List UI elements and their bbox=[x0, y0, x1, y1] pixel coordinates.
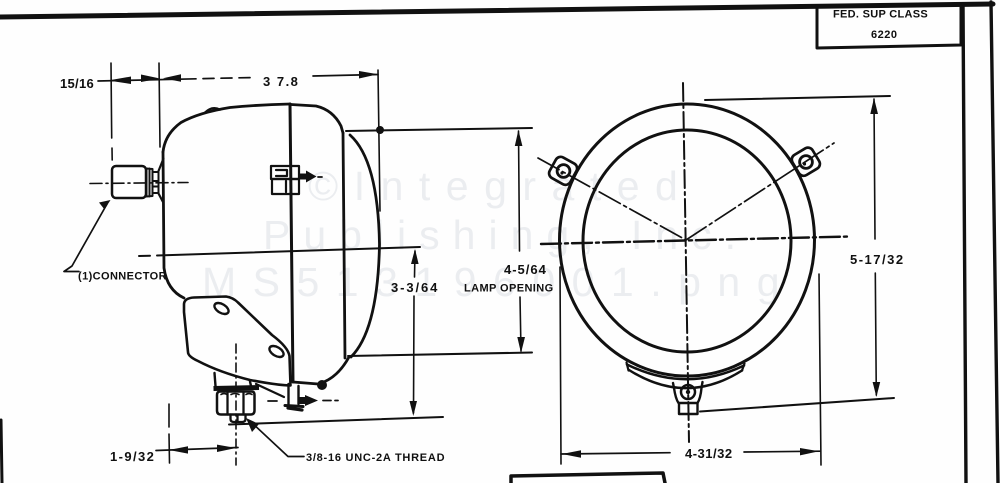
top dimension line left part bbox=[98, 78, 250, 81]
stud end center dot bbox=[686, 390, 690, 394]
rear foot bottom pad bbox=[285, 406, 303, 407]
top dimension line right part bbox=[313, 75, 378, 77]
inner lens ellipse bbox=[583, 130, 791, 352]
4-31/32 dim line right bbox=[744, 450, 820, 453]
3-3/64 top extension line bbox=[139, 247, 420, 256]
right diagonal centerline bbox=[686, 143, 834, 240]
bottom partial box bbox=[511, 473, 665, 483]
arrow at right ext bbox=[359, 71, 378, 79]
3-3/64 dimension line upper bbox=[414, 251, 417, 277]
connector leader line bbox=[64, 204, 107, 272]
3-3/64 arrow up bbox=[411, 249, 419, 264]
svg-text:6220: 6220 bbox=[871, 29, 897, 41]
bottom flange lower edge bbox=[629, 370, 742, 388]
svg-text:LAMP OPENING: LAMP OPENING bbox=[464, 283, 554, 295]
left border bottom segment bbox=[1, 420, 2, 483]
stud end below nut bbox=[231, 415, 246, 423]
bracket lower fold line to foot bbox=[256, 384, 284, 397]
4-31/32 dim line left bbox=[561, 453, 670, 454]
1-9/32 arrow left bbox=[169, 446, 188, 453]
body center seam line bbox=[290, 104, 293, 382]
3-3/64 bottom extension line bbox=[229, 417, 443, 425]
mounting bracket outline bbox=[184, 297, 291, 386]
fed sup class title box bbox=[817, 6, 961, 48]
svg-text:3-3/64: 3-3/64 bbox=[391, 280, 439, 295]
stud shoulder bbox=[215, 373, 252, 386]
5-17/32 top extension bbox=[705, 96, 890, 100]
svg-text:4-31/32: 4-31/32 bbox=[685, 446, 733, 461]
hex nut facet lines bbox=[228, 392, 244, 415]
svg-text:5-17/32: 5-17/32 bbox=[850, 252, 905, 267]
lens mounting face vertical bbox=[343, 133, 345, 358]
flange left end cap bbox=[627, 363, 629, 371]
svg-text:3 7.8: 3 7.8 bbox=[263, 74, 299, 89]
3-3/64 arrow down bbox=[410, 401, 418, 416]
thread leader arrowhead bbox=[246, 418, 259, 432]
lamp opening dim line lower bbox=[520, 297, 521, 351]
junction dot bottom of lens bbox=[317, 380, 327, 390]
body bottom edge bbox=[293, 357, 349, 384]
flange right end cap bbox=[742, 364, 745, 371]
stud housing trapezoid bbox=[673, 382, 703, 403]
1-9/32 left extension bbox=[168, 404, 171, 463]
5-17/32 arrow down bbox=[873, 382, 881, 397]
svg-text:FED. SUP CLASS: FED. SUP CLASS bbox=[833, 9, 928, 21]
left mounting ear bbox=[547, 155, 579, 187]
4-31/32 arrow right bbox=[800, 448, 819, 455]
svg-text:1-9/32: 1-9/32 bbox=[110, 449, 155, 464]
body top right edge and rear corner bbox=[291, 105, 343, 134]
stud housing lower block bbox=[679, 403, 698, 414]
right border inner vertical bbox=[963, 4, 966, 483]
bracket hole lower bbox=[268, 344, 286, 360]
lamp body left edge bbox=[163, 152, 184, 298]
5-17/32 arrow up bbox=[870, 98, 878, 114]
connector centerline bbox=[90, 183, 188, 184]
rear foot centerline dashes bbox=[268, 400, 338, 403]
rear foot verticals bbox=[289, 384, 299, 405]
svg-text:©Integrated: ©Integrated bbox=[308, 163, 693, 209]
1-9/32 dimension line bbox=[156, 448, 238, 451]
4-31/32 left extension bbox=[560, 267, 561, 464]
extension line 15/16 left bbox=[111, 63, 112, 160]
lamp opening top extension bbox=[346, 128, 532, 131]
junction dot on lamp opening extension bbox=[376, 126, 384, 134]
connector flange bbox=[147, 169, 153, 197]
horizontal centerline bbox=[541, 237, 850, 245]
1-9/32 arrow right bbox=[217, 445, 236, 452]
lamp body top dome curve bbox=[163, 104, 290, 152]
svg-text:4-5/64: 4-5/64 bbox=[504, 262, 547, 277]
connector flare top bbox=[159, 159, 164, 172]
connector body block bbox=[112, 166, 146, 198]
arrow at left ext bbox=[108, 77, 131, 85]
thread leader line bbox=[250, 421, 304, 457]
svg-text:15/16: 15/16 bbox=[60, 76, 94, 91]
lens bulge arc bbox=[350, 135, 380, 357]
left diagonal centerline bbox=[538, 158, 686, 240]
rear foot arrow bbox=[299, 397, 305, 404]
socket arrow dash bbox=[318, 176, 322, 178]
4-31/32 right extension bbox=[819, 274, 821, 465]
5-17/32 bottom extension bbox=[700, 398, 894, 412]
extension line shared middle bbox=[159, 63, 160, 147]
connector leader arrowhead bbox=[99, 200, 111, 210]
lamp opening arrow up bbox=[515, 130, 523, 146]
right mounting ear bbox=[790, 146, 822, 178]
right border outer vertical bbox=[991, 2, 998, 483]
stud end ring bbox=[681, 385, 695, 399]
extension line 3-7/8 right bbox=[378, 70, 380, 211]
3-3/64 dimension line lower bbox=[413, 296, 416, 413]
screw bump on dome bbox=[205, 108, 220, 112]
lamp opening dim line upper bbox=[519, 131, 520, 251]
svg-text:(1)CONNECTOR: (1)CONNECTOR bbox=[78, 271, 167, 283]
hex nut bbox=[217, 392, 255, 415]
right ear hole bbox=[800, 156, 813, 169]
lamp opening bottom extension bbox=[348, 353, 532, 357]
connector collar bbox=[153, 172, 159, 193]
socket fixture lower box bbox=[272, 179, 299, 194]
lamp opening arrow down bbox=[517, 337, 525, 353]
outer rim ellipse bbox=[560, 104, 815, 376]
hex nut facet top arcs bbox=[221, 394, 252, 395]
top border line bbox=[0, 4, 993, 17]
connector flare bottom bbox=[159, 194, 164, 203]
bracket hole upper bbox=[213, 301, 231, 317]
socket fixture upper box bbox=[271, 166, 299, 179]
stud centerline vertical bbox=[235, 344, 237, 465]
5-17/32 dim line upper bbox=[874, 99, 875, 239]
left ear hole bbox=[557, 165, 570, 178]
5-17/32 dim line lower bbox=[875, 273, 876, 395]
stud washer bar bbox=[214, 388, 260, 389]
4-31/32 arrow left bbox=[562, 450, 581, 457]
arrow pair at middle ext bbox=[141, 75, 160, 83]
svg-text:3/8-16 UNC-2A THREAD: 3/8-16 UNC-2A THREAD bbox=[306, 452, 445, 464]
vertical centerline bbox=[683, 83, 689, 442]
bottom flange upper edge bbox=[627, 365, 744, 380]
socket arrow bbox=[299, 174, 306, 180]
